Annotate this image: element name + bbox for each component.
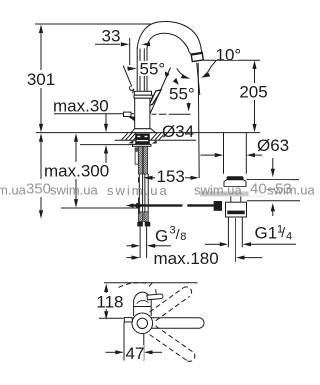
counter top surface line (36, 132, 260, 134)
svg-text:G: G (155, 227, 168, 246)
counter bottom line (80, 144, 136, 146)
inner cap curve (137, 301, 149, 304)
faucet body side view (135, 98, 150, 129)
counter hatch right of shank (151, 133, 158, 140)
base flange trapezoid (131, 129, 155, 133)
watermark 40-53 (249, 180, 292, 196)
svg-text:118: 118 (96, 293, 123, 312)
svg-text:swim.ua: swim.ua (107, 183, 169, 198)
hatch boundary line under counter (Ø34 leader) (115, 139, 196, 141)
svg-text:55°: 55° (169, 85, 195, 104)
pop-up rod vertical pin at ball (138, 198, 140, 214)
G3/8 thread tube extension lines (139, 227, 141, 258)
40-53 lower reference line (247, 200, 300, 202)
118 bottom reference stub (99, 317, 124, 319)
mounting nut dark block (135, 134, 150, 145)
handle open position line (left, 55deg #1) (123, 66, 132, 87)
dimension 33 extension line (129, 38, 131, 65)
svg-text:350: 350 (26, 181, 51, 198)
47 dimension left arrow (106, 351, 116, 353)
label 10deg (215, 46, 241, 65)
bearing inner circle (137, 318, 147, 328)
pop-up horizontal rod (133, 204, 182, 206)
max.180 dimension left arrow (127, 257, 132, 259)
tailpipe walls (227, 217, 229, 247)
dimension Ø63 left arrow (201, 154, 216, 156)
dimension max.300 top arrow (74, 133, 78, 142)
hose connector right (hatched) (144, 212, 148, 222)
nut side wedges (128, 140, 133, 143)
label 55deg #2 (169, 85, 197, 104)
dimension 153 line left part with arrow (138, 177, 140, 182)
rod ball joint (135, 203, 141, 209)
label max.300 (43, 162, 109, 181)
hose end reference line (61, 207, 140, 209)
lever (front view) pointing right (147, 294, 163, 300)
dimension max.300 bottom arrow (74, 199, 78, 208)
dimension max.30 upper arrow (above counter) (105, 114, 107, 124)
dimension 205 bottom arrow (252, 124, 256, 132)
body centerline dash-dot (152, 113, 157, 115)
40-53 dimension up arrow (272, 211, 274, 216)
left nub on body (124, 112, 132, 116)
top tangent reference line (104, 282, 198, 284)
spout inner arc (147, 33, 191, 55)
riser column inner tube lines (139, 49, 141, 92)
svg-text:max.180: max.180 (154, 249, 219, 268)
dimension max.30 lower arrow (below counter) (105, 153, 107, 163)
water stream vertical line from outlet (198, 63, 199, 178)
body walls front view (133, 306, 135, 316)
dimension 350 (below counter at x=41) line (40, 137, 42, 179)
spout outlet cap joint band (191, 53, 203, 55)
left nub (front view) (124, 318, 132, 322)
handle open position line (right, 55deg #2) (150, 68, 170, 114)
label 47 (125, 344, 145, 363)
svg-text:Ø63: Ø63 (257, 136, 289, 155)
10 degree leader bend (210, 60, 216, 68)
threaded shank right column (143, 146, 147, 174)
dimension max.300 vertical line (75, 137, 77, 162)
55deg #2 down arrow to centerline (188, 103, 190, 106)
G3/8 dimension arrows (127, 245, 132, 247)
svg-text:m.ua: m.ua (0, 183, 27, 198)
10 degree tilted line from outlet (197, 63, 200, 96)
rod right black fitting (214, 201, 222, 211)
cartridge collar lower (134, 95, 152, 98)
handle lever (closed position, outline) (149, 90, 161, 106)
118 dimension line (105, 290, 107, 293)
dimension 301 vertical line (40, 26, 42, 70)
svg-text:Ø34: Ø34 (162, 122, 194, 141)
drain flange extension line right (245, 133, 247, 174)
body/cap joint line (134, 306, 152, 308)
max.180 right arrow (236, 256, 245, 260)
drain flange extension line left (223, 133, 225, 174)
spout arm solid (front view) (148, 318, 204, 329)
top reference line (spout top level) (35, 23, 151, 25)
dome cap of body (front view) (134, 292, 152, 306)
svg-text:55°: 55° (140, 60, 166, 79)
label 205 (239, 83, 267, 102)
drain neck (230, 187, 232, 202)
hose end cap left (137, 222, 143, 227)
spout outer arc (137, 22, 202, 54)
dimension 205 vertical line (254, 66, 256, 83)
lever pin (155, 289, 158, 294)
svg-text:swim.ua: swim.ua (194, 183, 242, 198)
svg-text:33: 33 (102, 27, 121, 46)
40-53 dimension down arrow (272, 158, 274, 169)
svg-text:/: / (281, 224, 285, 240)
left nub support wedge (128, 117, 135, 122)
handle rotated dash (front view) (149, 281, 154, 286)
dashed arm upper (150, 287, 192, 321)
counter hatch left of shank (122, 133, 129, 140)
handle open knob hook (left) (130, 86, 134, 93)
svg-text:max.300: max.300 (44, 162, 109, 181)
handle swivel dashed arc (front view) (119, 283, 147, 288)
hose end cap right (145, 222, 151, 227)
trap body (226, 202, 247, 217)
svg-text:205: 205 (239, 83, 267, 102)
washer under nut (133, 144, 152, 146)
svg-text:max.30: max.30 (53, 97, 109, 116)
dimension 301 bottom arrow (39, 124, 43, 132)
svg-text:swim.ua: swim.ua (267, 183, 315, 198)
dimension 33 line and arrows (95, 43, 120, 45)
riser column outer walls (136, 48, 138, 92)
dashed arm lower (150, 326, 195, 361)
label 55deg #1 (139, 60, 165, 79)
dimension Ø63 right arrow (247, 153, 256, 157)
svg-text:10°: 10° (216, 46, 242, 65)
118 bottom arrow (104, 311, 108, 320)
dimension max.30 underline leader (54, 113, 134, 115)
dimension 350 top arrow (39, 133, 43, 142)
threaded shank left column (138, 146, 142, 174)
118 top arrow (104, 284, 108, 293)
47 dimension extension lines (123, 323, 125, 361)
tailpipe axis line (235, 218, 237, 262)
spout outlet cap (191, 53, 203, 61)
hose connector left (hatched) (138, 212, 142, 222)
G1 1/4 dimension left arrow (205, 243, 220, 245)
47 dimension right arrow (144, 350, 153, 354)
cartridge collar upper (134, 91, 151, 95)
svg-text:swim.ua: swim.ua (50, 183, 98, 198)
pop-up rod guide left of shank (135, 148, 138, 164)
watermark 350 (26, 181, 53, 197)
55deg #2 double arrowheads along lever (164, 71, 170, 78)
drain flange body (224, 180, 246, 187)
drain plug dark top (227, 176, 244, 179)
dimension 301 top arrow (39, 25, 43, 34)
rod left end wedge (126, 203, 133, 207)
bearing outer circle (132, 313, 153, 334)
label 301 (27, 70, 55, 89)
label 118 (96, 293, 124, 312)
spout swivel arc left segment with arrowhead (177, 68, 185, 76)
svg-text:47: 47 (126, 344, 145, 363)
55deg #1 arrowhead (127, 67, 136, 71)
40-53 upper reference line (247, 179, 300, 181)
watermark gray band (200, 187, 266, 197)
trap body dark band (227, 211, 244, 215)
svg-text:4: 4 (286, 231, 292, 243)
label 153 (155, 167, 185, 186)
flexible hose left (138, 174, 140, 212)
svg-text:8: 8 (180, 231, 186, 243)
dimension 350 bottom arrow (39, 210, 43, 219)
svg-text:/: / (176, 226, 180, 242)
flexible hose right (144, 174, 146, 212)
10 degree reference line to 205 dimension (204, 59, 261, 61)
svg-text:301: 301 (27, 70, 55, 89)
G1 1/4 dimension right arrow (243, 242, 252, 246)
spout swivel arc right segment with arrowhead (204, 68, 210, 76)
dimension 205 top arrow (252, 60, 256, 69)
svg-text:G1: G1 (255, 224, 278, 243)
dimension 153 line right part with arrow (184, 177, 191, 179)
